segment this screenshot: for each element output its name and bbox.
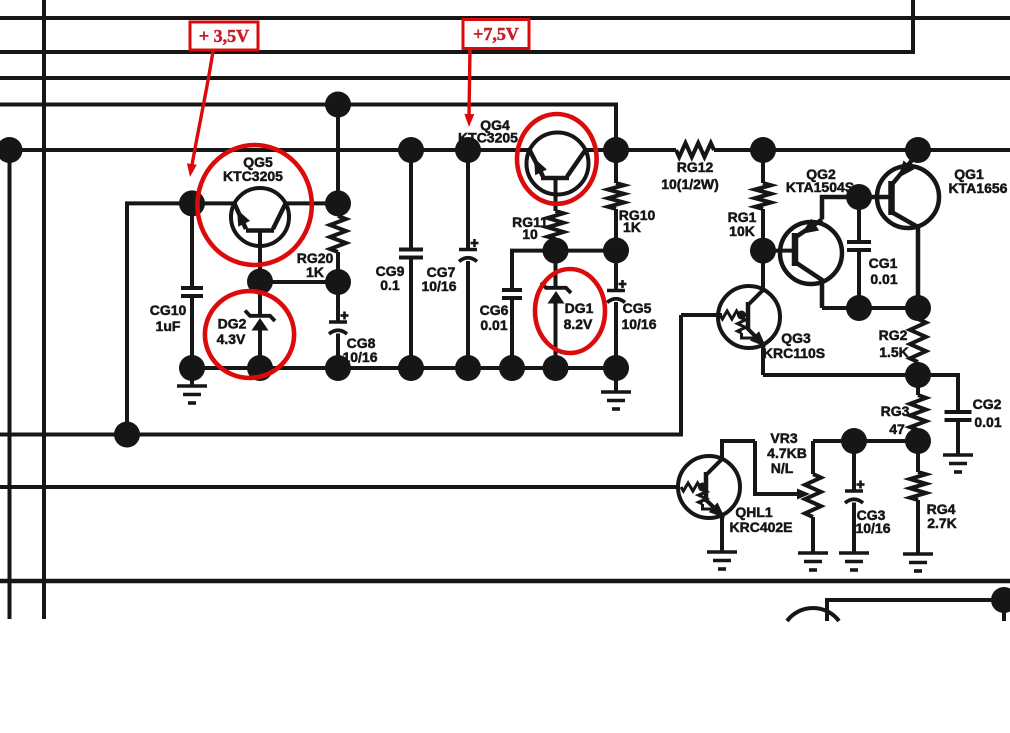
node on L5 left [0,137,23,163]
node DG2 bottom [247,355,273,381]
node CG5 bottom [603,355,629,381]
resistor RG3 [916,375,920,395]
ground under CG3 [839,551,869,555]
capacitor CG9 [409,150,413,250]
svg-text:8.2V: 8.2V [564,316,593,332]
capacitor CG6 [502,288,522,292]
svg-text:0.01: 0.01 [974,414,1001,430]
transistor QG2 internals [792,233,799,266]
transistor QG3 internals [681,313,722,317]
wire bottom long rail [0,579,1010,584]
wire QG2 base [763,249,795,253]
node RG1 top [750,137,776,163]
svg-text:N/L: N/L [771,460,794,476]
transistor QG5 internals [246,228,274,233]
red arrow from +3.5V box [192,51,214,168]
svg-text:1uF: 1uF [156,318,181,334]
capacitor CG1 [857,197,861,242]
node RG20 bottom [325,269,351,295]
wire bus L5 right part [714,148,1010,152]
wire bus L3 [0,76,1010,80]
capacitor CG2 [945,410,972,414]
svg-text:RG3: RG3 [881,403,910,419]
wire QG5 collector to RG20 [285,201,338,205]
node RG10 bottom [603,237,629,263]
svg-text:DG1: DG1 [565,300,594,316]
svg-text:KTA1504S: KTA1504S [786,179,854,195]
node bottom right [991,587,1010,613]
svg-text:10: 10 [522,226,538,242]
ground under VR3 [798,551,828,555]
wire left vertical B [8,150,12,619]
wire bus L1 (+B top rail) [0,16,1010,20]
svg-text:10(1/2W): 10(1/2W) [661,176,719,192]
ground under RG4 [903,552,933,556]
svg-text:+ 3,5V: + 3,5V [199,26,249,46]
red arrow from +7.5V box [469,49,470,117]
svg-text:QHL1: QHL1 [735,504,773,520]
wire RG20 top drop from L4 [336,105,340,204]
node QG1 collector bottom [905,295,931,321]
potentiometer VR3 [811,441,815,474]
node CG9 bottom [398,355,424,381]
svg-text:RG2: RG2 [879,327,908,343]
transistor QHL1 circle [678,456,740,518]
wire base row [260,280,338,284]
svg-text:DG2: DG2 [218,316,247,332]
svg-text:KTC3205: KTC3205 [223,168,283,184]
svg-text:CG1: CG1 [869,255,898,271]
resistor RG12 [676,143,714,157]
svg-text:+7,5V: +7,5V [473,24,519,44]
svg-text:CG6: CG6 [480,302,509,318]
node RG2 bottom [905,362,931,388]
resistor RG1 [761,150,765,183]
zener DG1 [554,251,558,288]
svg-text:KRC402E: KRC402E [729,519,792,535]
transistor QHL1 internals [681,483,700,491]
node QG2 base junction [750,238,776,264]
node CG7 bottom [455,355,481,381]
svg-text:VR3: VR3 [770,430,797,446]
wire QG5 base row left [127,203,235,434]
node CG3 top [841,428,867,454]
node CG6 bottom [499,355,525,381]
transistor QG4 circle [527,133,589,195]
transistor (partial, bottom) arc [787,608,839,621]
node RG3 bottom [905,428,931,454]
wire QG3 emitter row [763,373,918,377]
wire RG11-RG10 row [556,249,617,253]
node RG11 bottom [543,238,569,264]
capacitor CG3 [852,441,856,491]
capacitor CG10 [190,203,194,288]
red circle around DG1 [535,269,605,353]
wire VR3 top row [813,439,918,443]
ground under CG10 [190,368,194,386]
svg-text:KTA1656: KTA1656 [949,180,1008,196]
wire RG2 junction to CG2 [918,375,958,412]
wire bus L5 (+7.5V rail) left part [0,148,529,152]
wire left vertical A [42,0,46,619]
svg-text:RG12: RG12 [677,159,714,175]
ground under CG2 [943,453,973,457]
node CG1 bottom [846,295,872,321]
svg-text:CG2: CG2 [973,396,1002,412]
ground under CG5 [614,368,618,392]
wire to CG6 [512,251,556,290]
wire bus L2 with corner up at right [0,50,913,54]
wire bus L4 to QG4 collector drop [0,105,616,151]
svg-text:0.1: 0.1 [380,277,400,293]
red callout box +3.5V [190,22,258,50]
resistor RG20 [336,203,340,216]
svg-text:10/16: 10/16 [342,349,377,365]
svg-text:KRC110S: KRC110S [763,345,825,361]
wire collector row [822,306,918,310]
resistor RG11 [548,211,564,239]
node QG2-QG1 mid junction [846,184,872,210]
node CG8 bottom [325,355,351,381]
wire bottom stage collector [827,600,1004,621]
svg-text:QG3: QG3 [781,330,811,346]
node CG10 bottom [179,355,205,381]
node QG5 base junction [179,190,205,216]
svg-text:1K: 1K [306,264,324,280]
svg-text:10/16: 10/16 [421,278,456,294]
svg-text:0.01: 0.01 [480,317,507,333]
transistor QG3 circle [718,286,780,348]
svg-text:KTC3205: KTC3205 [458,130,518,146]
zener DG2 [258,282,262,316]
transistor QG5 circle [231,188,289,246]
svg-text:10/16: 10/16 [855,520,890,536]
node on L4 [325,92,351,118]
node QG5 base bottom [247,269,273,295]
resistor RG4 [916,441,920,472]
node on QG3-base line [114,422,140,448]
red circle around QG4 [517,114,597,204]
node DG1 bottom [543,355,569,381]
node CG7 top [455,137,481,163]
transistor QG1 internals [888,181,895,215]
svg-text:4.7KB: 4.7KB [767,445,807,461]
capacitor CG5 [614,250,618,290]
red circle around QG5 [197,145,311,265]
capacitor CG8 [336,282,340,322]
capacitor CG7 [466,150,470,250]
wire VR3 wiper [755,441,798,494]
wire stub below node [1002,600,1006,621]
node RG20 top [325,190,351,216]
svg-text:CG10: CG10 [150,302,187,318]
transistor QG1 circle [877,166,939,228]
node QG1 emitter on L5 [905,137,931,163]
svg-text:1.5K: 1.5K [879,344,909,360]
svg-text:10K: 10K [729,223,755,239]
svg-text:10/16: 10/16 [621,316,656,332]
svg-text:CG5: CG5 [623,300,652,316]
node CG9 top [398,137,424,163]
wire long line to QHL1 base [0,485,679,489]
svg-text:47: 47 [889,421,905,437]
svg-text:4.3V: 4.3V [217,331,246,347]
resistor RG10 [614,150,618,183]
svg-text:2.7K: 2.7K [927,515,957,531]
wire long line to QG3 base [0,315,681,435]
transistor QG4 internals [541,176,569,181]
wire bottom bus [192,366,616,370]
resistor RG2 [916,308,920,319]
red circle around DG2 [205,291,294,378]
svg-text:1K: 1K [623,219,641,235]
node QG4 collector on L5 [603,137,629,163]
wire bus L5 mid part [585,148,676,152]
svg-text:0.01: 0.01 [870,271,897,287]
ground under QHL1 [707,550,737,554]
transistor QG2 circle [780,222,842,284]
red callout box +7.5V [463,20,529,49]
